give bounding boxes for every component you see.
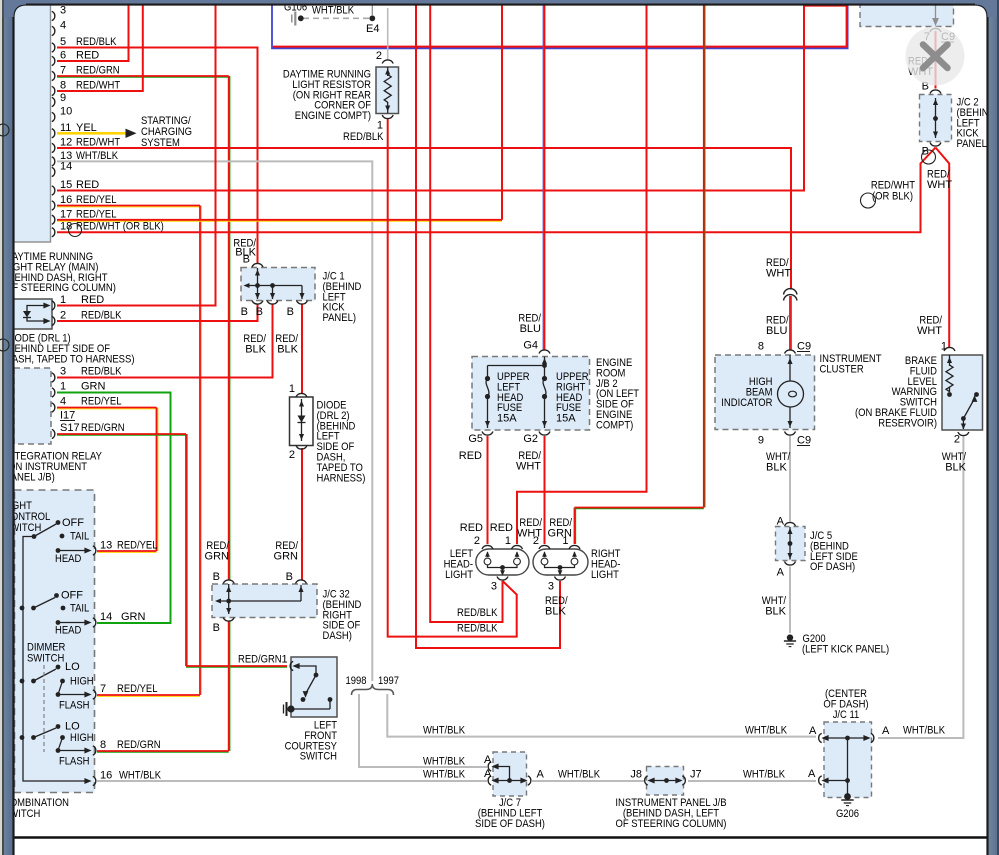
fuse at x=544.5 [542,376,547,381]
svg-text:RED/GRN: RED/GRN [238,654,282,666]
svg-text:1: 1 [562,535,568,547]
svg-text:A: A [484,768,492,780]
svg-text:15A: 15A [556,413,576,425]
svg-text:WHT/BLK: WHT/BLK [312,5,355,17]
svg-text:TAIL: TAIL [70,531,89,543]
svg-text:16: 16 [100,770,112,782]
svg-text:9: 9 [60,92,66,104]
svg-text:18: 18 [60,221,72,233]
pin 8 arc [52,86,55,95]
svg-text:2: 2 [376,50,382,62]
J/C 5 internals [785,522,796,526]
svg-text:RED/BLK: RED/BLK [81,310,122,322]
svg-text:BLK: BLK [945,462,966,474]
svg-text:RED/YEL: RED/YEL [81,396,122,408]
svg-text:J/C 11: J/C 11 [833,709,860,721]
instrument cluster internals: high beam indicator [785,350,796,354]
svg-text:RED/YEL: RED/YEL [76,208,117,220]
pin 4 arc [52,26,55,35]
wire pin6 RED up to relay [57,5,129,61]
diode DRL2 symbol [301,399,303,441]
wire pin5 RED/BLK to J/C1 top [57,48,258,265]
svg-text:3: 3 [491,581,497,593]
svg-text:OF DASH): OF DASH) [810,561,855,573]
wire G4 RED/BLU from relay to engine room J/B2 [542,5,544,350]
pin 6 arc [52,56,55,65]
J/C 32 box [212,584,317,618]
wire integration relay pin1 GRN to light control pin14 [57,393,171,624]
pin 9 arc [52,97,55,106]
wire pin16 RED/YEL down to dimmer pin7 [57,206,200,208]
svg-text:WHT/BLK: WHT/BLK [423,769,466,781]
svg-text:BLK: BLK [245,344,266,356]
wire J/C5 to ground G200 [789,567,791,634]
svg-text:WHT/BLK: WHT/BLK [558,769,601,781]
svg-text:OF STEERING COLUMN): OF STEERING COLUMN) [616,818,727,830]
svg-text:RED/GRN: RED/GRN [117,739,161,751]
svg-text:14: 14 [100,611,112,623]
J/C 2 internals [930,90,941,94]
svg-text:2: 2 [289,449,295,461]
svg-text:WHT/BLK: WHT/BLK [119,770,162,782]
J/C 5 box [776,527,806,561]
svg-text:RED: RED [81,294,104,306]
wire left headlight pin3 RED/BLK to DRL resistor pin1 [388,119,517,637]
wire J/C2 right leg RED/WHT to brake switch pin1 [936,148,950,349]
svg-text:RED: RED [459,450,482,462]
svg-text:GRN: GRN [81,381,106,393]
svg-text:ENGINE COMPT): ENGINE COMPT) [295,110,371,122]
highlight circle RED/WHT (OR BLK) [861,193,876,208]
svg-text:15: 15 [60,179,72,191]
svg-text:RED/GRN: RED/GRN [76,65,120,77]
svg-text:12: 12 [60,137,72,149]
svg-text:RED/YEL: RED/YEL [76,194,117,206]
svg-text:PANEL): PANEL) [957,138,991,150]
wire J7 to J/C11 second pin [688,780,816,782]
wire E4 lead [371,4,373,15]
wire C9 pin7 RED/WHT into J/C2 [935,31,937,89]
svg-text:3: 3 [60,5,66,17]
wire pin17 RED/YEL up to relay [57,220,502,222]
svg-text:WHT/BLK: WHT/BLK [423,756,466,768]
svg-text:1: 1 [60,381,66,393]
svg-text:7: 7 [60,65,66,77]
wire pin15 RED around top to relay box corner [57,6,847,191]
svg-text:PANEL): PANEL) [323,312,357,324]
wire cluster pin9 WHT/BLK to J/C5 [789,436,791,522]
svg-text:BLK: BLK [765,606,786,618]
svg-text:(OR BLK): (OR BLK) [872,191,913,203]
pin 13 arc [52,157,55,166]
engine room J/B 2 box [472,357,590,431]
svg-text:RED/YEL: RED/YEL [117,540,158,552]
highlight circle pin18 [69,224,82,237]
svg-text:GRN: GRN [274,551,299,563]
resistor R (daytime running light resistor) [387,67,389,76]
wire J/C1 pin B to diode DRL2 pin1 [301,304,303,394]
fuse at x=487.5 [485,376,490,381]
pin 14 arc [52,167,55,176]
wire S17 RED/GRN to courtesy switch pin1 [57,434,186,436]
svg-text:3: 3 [548,581,554,593]
svg-text:C9: C9 [797,341,811,353]
svg-text:WHT: WHT [917,325,942,337]
ground G206 [844,793,851,800]
svg-text:1: 1 [377,120,383,132]
svg-text:1: 1 [505,535,511,547]
svg-text:WHT/BLK: WHT/BLK [76,150,119,162]
svg-text:A: A [777,567,785,579]
svg-text:BLK: BLK [277,344,298,356]
pin 5 arc [52,43,55,52]
svg-text:9: 9 [758,435,764,447]
svg-text:HIGH: HIGH [70,676,94,688]
svg-text:FLASH: FLASH [59,700,90,712]
svg-text:1: 1 [282,654,288,666]
svg-text:WHT/BLK: WHT/BLK [423,725,466,737]
left headlight connector [476,549,529,575]
svg-text:BLK: BLK [766,462,787,474]
J/C 11 internals [819,733,822,742]
svg-text:DASH, TAPED TO HARNESS): DASH, TAPED TO HARNESS) [5,353,135,365]
svg-text:OFF: OFF [62,517,84,529]
svg-text:A: A [809,725,817,737]
svg-text:SWITCH: SWITCH [27,653,64,665]
brake switch internals [944,347,955,351]
relay connector box (top-left, clipped) [10,2,51,242]
svg-text:A: A [808,768,816,780]
svg-text:HEAD: HEAD [55,625,81,637]
svg-text:WHT/BLK: WHT/BLK [743,769,786,781]
pin 12 arc [52,143,55,152]
frame top corner fills [0,0,26,17]
wire G2 RED/WHT to right headlight pin2 [544,436,546,544]
diode DRL2 box [290,397,314,446]
J/C 1 internals [252,263,263,267]
wire integration relay pin3 RED/BLK to J/C1 pin B [57,304,273,378]
svg-text:OF STEERING COLUMN): OF STEERING COLUMN) [5,282,116,294]
courtesy switch internals [290,661,293,670]
svg-text:I17: I17 [60,410,75,422]
daytime running light resistor box [376,67,399,114]
highlight circle below J/C2 [922,150,936,164]
svg-text:3: 3 [60,366,66,378]
dimmer mechanical link dashed [43,665,45,752]
svg-text:GRN: GRN [205,551,230,563]
svg-text:TAIL: TAIL [70,603,89,615]
svg-text:G5: G5 [468,433,483,445]
wire DRL1 pin2 RED/BLK to J/C1 pin B [57,304,258,321]
instrument cluster box [715,355,815,430]
svg-text:RESERVOIR): RESERVOIR) [878,417,937,429]
svg-text:LIGHT: LIGHT [445,569,473,581]
integration relay pin arcs [52,373,55,382]
svg-text:RED/WHT: RED/WHT [76,137,120,149]
brake fluid level warning switch box [942,355,983,430]
svg-text:8: 8 [758,341,764,353]
svg-text:LO: LO [65,721,80,733]
svg-text:RED/WHT: RED/WHT [76,80,120,92]
wire J/C11 right pin to brake switch pin2 [878,436,963,738]
frame outer light edge [0,0,2,855]
svg-text:5: 5 [60,36,66,48]
svg-text:B: B [213,622,220,634]
pin 16 arc [52,201,55,210]
cut box top right: internal arrow [935,2,937,22]
J/C 32 internals [223,580,234,584]
wire J/C7 to instrument panel J/B J8 [532,780,644,782]
wire pin12 RED/WHT to instrument cluster pin8 [57,148,791,290]
E4 terminal dot [369,15,375,21]
svg-text:BLU: BLU [520,323,541,335]
svg-text:RED/YEL: RED/YEL [117,683,158,695]
combination switch box [15,490,95,793]
svg-text:RED: RED [490,522,513,534]
wire diode DRL2 pin2 RED/GRN to J/C32 top-right [301,448,303,581]
svg-text:1: 1 [941,341,947,353]
wire RED/BLU into cluster pin 8 [790,296,792,350]
svg-text:6: 6 [60,50,66,62]
diode DRL1 box [12,299,52,329]
year split brace 1998/1997 [352,684,394,695]
svg-text:HEAD: HEAD [55,553,81,565]
svg-text:1: 1 [60,294,66,306]
svg-text:2: 2 [474,535,480,547]
svg-text:1997: 1997 [378,675,399,687]
svg-text:2: 2 [954,434,960,446]
svg-text:B: B [256,306,263,318]
svg-text:HIGH: HIGH [70,732,94,744]
svg-text:RED/BLK: RED/BLK [76,36,117,48]
ground G200 [787,634,793,640]
svg-text:CLUSTER: CLUSTER [820,363,864,375]
svg-text:B: B [243,254,250,266]
wire left headlight pin1 RED via top to relay [517,5,647,544]
svg-text:LO: LO [65,661,80,673]
svg-text:RED/BLK: RED/BLK [457,623,498,635]
svg-text:G2: G2 [523,433,538,445]
engine-room relay box top (navy border, cut off at top) [272,2,848,48]
svg-text:B: B [213,571,220,583]
svg-text:SYSTEM: SYSTEM [141,137,180,149]
svg-text:J8: J8 [630,769,642,781]
svg-text:11: 11 [60,122,71,134]
splice break symbol on RED/WHT wire [784,291,797,296]
engine room J/B cut box (top right) [860,2,954,27]
svg-text:B: B [241,306,248,318]
svg-text:BLU: BLU [766,325,787,337]
instrument panel J/B box [647,767,684,796]
wire pin13 WHT/BLK down to year split [57,161,372,681]
wire combination pin16 WHT/BLK to J/C7 [97,780,487,782]
svg-text:G4: G4 [523,340,538,352]
wire integration relay pin4 RED/YEL to light control pin13 [57,408,157,410]
svg-text:A: A [484,754,492,766]
svg-text:WHT/BLK: WHT/BLK [745,725,788,737]
diode DRL1 symbol [27,306,48,312]
svg-text:B: B [286,571,293,583]
svg-text:J7: J7 [690,769,702,781]
G106 ground terminal [294,12,296,26]
pin 10 arc [52,112,55,121]
wire pin8 RED/WHT up to relay [57,5,143,91]
svg-text:E4: E4 [366,23,379,35]
svg-text:RED/WHT (OR BLK): RED/WHT (OR BLK) [76,221,164,233]
svg-text:C9: C9 [797,435,811,447]
highlight circle left edge 1 [0,124,9,136]
wire pin7 RED/GRN down to J/C32 top-left [57,76,229,78]
pin 15 arc [52,186,55,195]
instrument panel J/B internals [645,776,648,785]
svg-text:INDICATOR: INDICATOR [721,397,772,409]
svg-text:SIDE OF DASH): SIDE OF DASH) [475,818,545,830]
pin 11 arc [52,129,55,138]
wire left headlight pin3 RED/BLK up to relay [430,5,502,622]
pin 3 arc [52,11,55,20]
wire 1998 branch WHT/BLK to J/C7 top pin [359,694,487,767]
pin 17 arc [52,215,55,224]
svg-text:A: A [882,725,890,737]
svg-text:YEL: YEL [76,122,97,134]
svg-text:14: 14 [60,161,72,173]
diagram bottom border line [15,836,988,838]
svg-text:7: 7 [100,683,106,695]
combination switch internals [56,520,61,525]
svg-text:B: B [922,146,929,158]
wire 1997 branch WHT/BLK to J/C11 left pin [387,694,816,737]
svg-text:8: 8 [60,80,66,92]
svg-text:1998: 1998 [346,675,367,687]
svg-text:S17: S17 [60,422,80,434]
svg-text:13: 13 [100,540,112,552]
right headlight connector [533,549,588,575]
svg-text:2: 2 [533,535,539,547]
svg-text:B: B [287,306,294,318]
wire right headlight pin3 RED/BLK up to relay [416,5,560,648]
svg-text:FLASH: FLASH [59,756,90,768]
J/C 2 box [920,95,952,142]
wire pin11 YEL starting/charging stub [57,132,126,135]
svg-text:A: A [777,516,785,528]
svg-text:RED: RED [76,50,99,62]
svg-text:RED/BLK: RED/BLK [457,607,498,619]
svg-text:GRN: GRN [121,611,146,623]
svg-text:RED: RED [460,522,483,534]
svg-text:2: 2 [60,310,66,322]
svg-text:RED: RED [76,179,99,191]
J/C 11 box [824,722,872,798]
svg-text:SWITCH: SWITCH [300,751,337,763]
J/C 1 box [241,268,315,301]
close button [906,27,965,86]
svg-text:10: 10 [60,106,72,118]
svg-text:DASH): DASH) [323,630,352,642]
J/C 7 internals [488,762,491,771]
wire WHT/BLK dashed G106 to E4 [303,17,369,19]
svg-text:COMPT): COMPT) [596,419,633,431]
svg-text:G206: G206 [836,808,859,820]
J/C 7 box [493,752,527,796]
svg-text:A: A [537,769,545,781]
pin 18 arc [52,228,55,237]
svg-text:RED/BLK: RED/BLK [81,366,122,378]
svg-text:WHT: WHT [516,461,541,473]
svg-text:8: 8 [100,739,106,751]
integration relay box [14,368,51,444]
svg-text:17: 17 [60,208,72,220]
left front courtesy switch box [291,657,337,717]
frame outer strips redraw [0,0,2,855]
highlight circle left edge 2 [0,339,9,351]
pin 7 arc [52,71,55,80]
svg-text:BLK: BLK [545,606,566,618]
svg-text:WHT: WHT [927,179,952,191]
svg-text:1: 1 [289,383,295,395]
svg-text:HARNESS): HARNESS) [317,472,366,484]
wire pin18 RED/WHT(OR BLK) to J/C2 left leg [57,148,936,233]
svg-text:WHT/BLK: WHT/BLK [903,725,946,737]
wire G5 RED to left headlight pin2 [487,436,489,544]
wire DRL1 pin1 RED up to relay [57,5,216,306]
svg-text:WHT: WHT [766,268,791,280]
svg-text:(LEFT KICK PANEL): (LEFT KICK PANEL) [802,644,889,656]
svg-text:4: 4 [60,396,66,408]
svg-text:15A: 15A [497,413,517,425]
combination switch pin arcs [93,546,96,555]
svg-text:4: 4 [60,20,66,32]
svg-text:RED/BLK: RED/BLK [343,131,384,143]
svg-text:LIGHT: LIGHT [591,569,619,581]
svg-text:RED/GRN: RED/GRN [81,422,125,434]
svg-text:16: 16 [60,194,72,206]
wire relay to resistor pin2 [387,8,389,61]
engine room J/B2 internals (head fuses) [539,350,550,354]
wire right headlight pin1 RED/GRN via top to relay [575,508,577,545]
wire J/C32 bottom B RED/GRN to dimmer pin8 [229,622,231,752]
svg-text:OFF: OFF [61,590,83,602]
